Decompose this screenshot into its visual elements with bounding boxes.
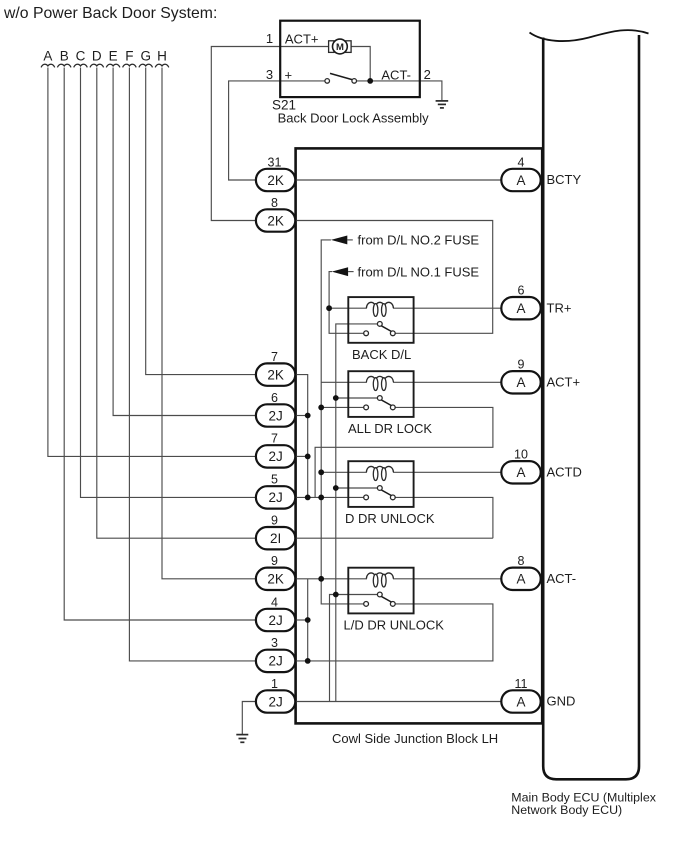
svg-text:2K: 2K: [267, 572, 284, 587]
svg-text:4: 4: [271, 595, 278, 609]
svg-text:A: A: [516, 375, 525, 390]
svg-text:3: 3: [271, 636, 278, 650]
svg-text:2K: 2K: [267, 213, 284, 228]
svg-text:2J: 2J: [268, 613, 282, 628]
svg-text:6: 6: [271, 391, 278, 405]
svg-text:3: 3: [266, 67, 273, 82]
svg-text:2J: 2J: [268, 449, 282, 464]
svg-text:B: B: [60, 49, 69, 64]
svg-text:GND: GND: [547, 694, 576, 709]
svg-text:D DR UNLOCK: D DR UNLOCK: [345, 511, 435, 526]
svg-text:9: 9: [271, 554, 278, 568]
svg-text:M: M: [336, 42, 344, 53]
svg-text:1: 1: [271, 677, 278, 691]
svg-text:A: A: [516, 572, 525, 587]
svg-text:BCTY: BCTY: [547, 172, 582, 187]
svg-text:8: 8: [518, 554, 525, 568]
svg-text:11: 11: [515, 677, 528, 691]
svg-text:from D/L NO.2 FUSE: from D/L NO.2 FUSE: [358, 233, 480, 248]
svg-text:Cowl Side Junction Block LH: Cowl Side Junction Block LH: [332, 731, 498, 746]
svg-text:F: F: [125, 49, 133, 64]
svg-text:7: 7: [271, 432, 278, 446]
svg-text:2K: 2K: [267, 367, 284, 382]
svg-text:ACT+: ACT+: [285, 32, 319, 47]
svg-text:2J: 2J: [268, 654, 282, 669]
svg-text:ACT+: ACT+: [547, 375, 581, 390]
svg-text:A: A: [43, 49, 52, 64]
svg-text:+: +: [285, 68, 293, 83]
svg-text:2J: 2J: [268, 408, 282, 423]
svg-text:2I: 2I: [270, 531, 281, 546]
svg-text:D: D: [92, 49, 102, 64]
svg-text:BACK D/L: BACK D/L: [352, 347, 411, 362]
svg-text:9: 9: [518, 358, 525, 372]
svg-text:9: 9: [271, 514, 278, 528]
svg-text:8: 8: [271, 196, 278, 210]
svg-text:A: A: [516, 694, 525, 709]
svg-text:4: 4: [518, 155, 525, 169]
svg-text:E: E: [109, 49, 118, 64]
svg-text:ALL DR LOCK: ALL DR LOCK: [348, 421, 432, 436]
svg-text:ACTD: ACTD: [547, 465, 582, 480]
svg-text:C: C: [76, 49, 86, 64]
svg-text:Back Door Lock Assembly: Back Door Lock Assembly: [278, 111, 430, 126]
svg-text:ACT-: ACT-: [547, 571, 577, 586]
svg-text:w/o Power Back Door System:: w/o Power Back Door System:: [3, 5, 217, 22]
svg-text:1: 1: [266, 31, 273, 46]
svg-text:7: 7: [271, 350, 278, 364]
svg-text:5: 5: [271, 473, 278, 487]
svg-text:A: A: [516, 301, 525, 316]
svg-text:10: 10: [514, 448, 528, 462]
svg-text:A: A: [516, 173, 525, 188]
svg-text:2K: 2K: [267, 173, 284, 188]
svg-text:6: 6: [518, 284, 525, 298]
svg-text:Network Body ECU): Network Body ECU): [511, 803, 622, 817]
svg-text:from D/L NO.1 FUSE: from D/L NO.1 FUSE: [358, 264, 480, 279]
svg-text:2: 2: [424, 67, 431, 82]
svg-text:2J: 2J: [268, 490, 282, 505]
svg-text:ACT-: ACT-: [381, 68, 411, 83]
svg-text:H: H: [157, 49, 167, 64]
svg-text:31: 31: [268, 155, 282, 169]
svg-text:TR+: TR+: [547, 300, 572, 315]
svg-text:A: A: [516, 465, 525, 480]
svg-text:2J: 2J: [268, 694, 282, 709]
svg-text:L/D DR UNLOCK: L/D DR UNLOCK: [344, 618, 445, 633]
svg-text:G: G: [140, 49, 151, 64]
